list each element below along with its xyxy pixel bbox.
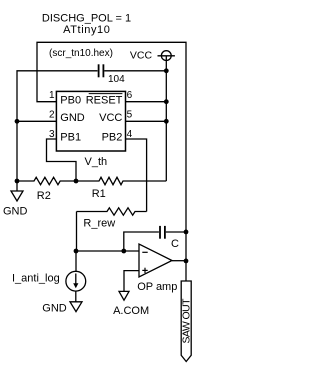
svg-text:GND: GND	[42, 302, 67, 314]
svg-text:RESET: RESET	[86, 94, 123, 106]
svg-text:DISCHG_POL = 1: DISCHG_POL = 1	[42, 12, 131, 24]
svg-text:C: C	[171, 238, 179, 250]
svg-text:3: 3	[49, 129, 55, 140]
svg-text:104: 104	[108, 74, 125, 85]
svg-text:2: 2	[49, 110, 55, 121]
svg-text:PB1: PB1	[60, 132, 81, 144]
svg-text:OP amp: OP amp	[137, 281, 177, 293]
svg-text:R1: R1	[92, 188, 106, 200]
svg-text:4: 4	[127, 129, 133, 140]
svg-text:R2: R2	[37, 190, 51, 202]
svg-text:GND: GND	[3, 206, 28, 218]
svg-text:VCC: VCC	[130, 50, 153, 62]
svg-text:1: 1	[49, 90, 55, 101]
svg-text:GND: GND	[60, 112, 85, 124]
svg-text:SAW OUT: SAW OUT	[181, 298, 193, 344]
svg-text:5: 5	[127, 110, 133, 121]
svg-text:PB2: PB2	[102, 132, 123, 144]
svg-text:PB0: PB0	[60, 94, 81, 106]
svg-text:VCC: VCC	[99, 112, 122, 124]
svg-text:(scr_tn10.hex): (scr_tn10.hex)	[49, 48, 113, 59]
svg-text:6: 6	[127, 90, 133, 101]
svg-text:I_anti_log: I_anti_log	[12, 273, 60, 285]
svg-text:V_th: V_th	[85, 156, 108, 168]
svg-text:ATtiny10: ATtiny10	[63, 24, 110, 36]
svg-text:A.COM: A.COM	[113, 305, 149, 317]
svg-text:R_rew: R_rew	[83, 217, 115, 229]
